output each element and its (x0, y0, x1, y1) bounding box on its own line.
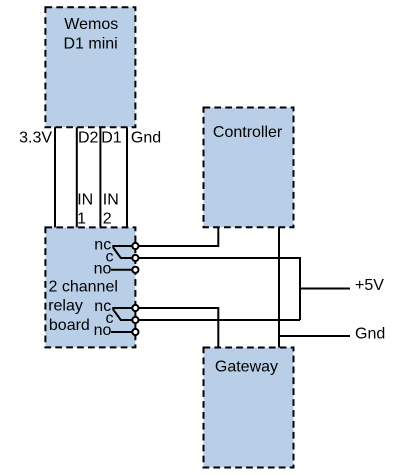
svg-text:2: 2 (103, 210, 112, 227)
svg-text:Controller: Controller (213, 124, 283, 141)
svg-text:Gateway: Gateway (215, 359, 278, 376)
svg-text:IN: IN (77, 192, 93, 209)
svg-text:relay: relay (48, 298, 83, 315)
svg-text:Gnd: Gnd (355, 325, 385, 342)
svg-text:no: no (94, 260, 112, 277)
svg-text:board: board (49, 317, 90, 334)
svg-text:+5V: +5V (355, 277, 384, 294)
svg-text:2 channel: 2 channel (49, 278, 118, 295)
svg-text:D1 mini: D1 mini (64, 36, 118, 53)
svg-text:no: no (94, 322, 112, 339)
svg-text:Wemos: Wemos (64, 16, 118, 33)
svg-text:D1: D1 (101, 130, 122, 147)
svg-text:3.3V: 3.3V (19, 130, 52, 147)
svg-text:IN: IN (103, 192, 119, 209)
svg-text:1: 1 (77, 210, 86, 227)
svg-text:D2: D2 (78, 130, 99, 147)
svg-text:Gnd: Gnd (131, 130, 161, 147)
